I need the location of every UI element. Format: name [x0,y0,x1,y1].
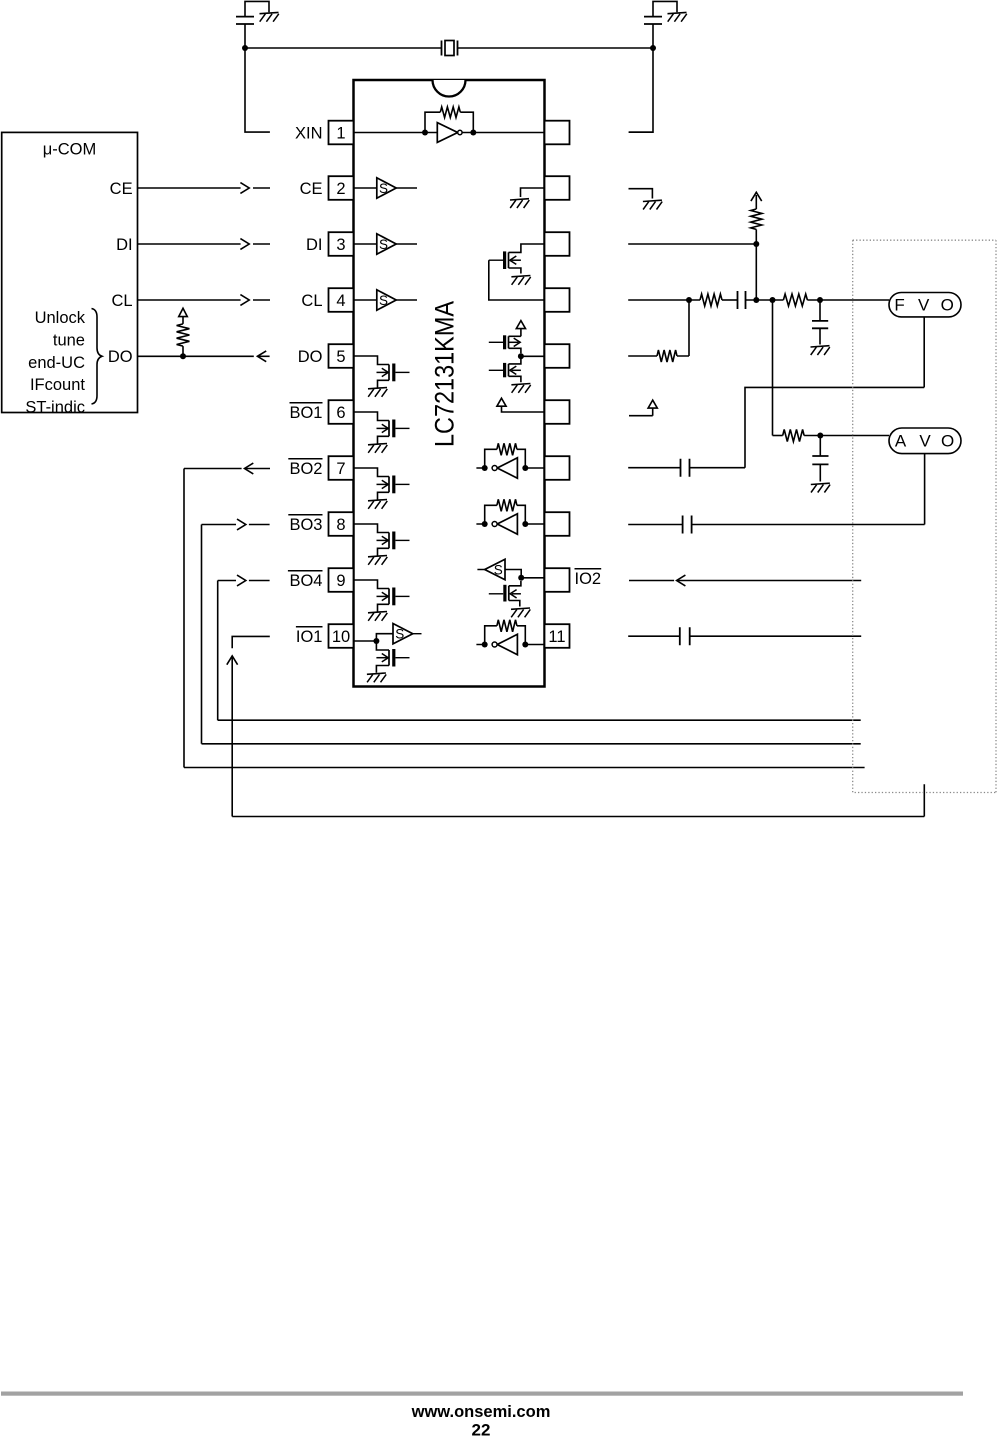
svg-text:DO: DO [108,348,133,366]
transistor Q10 NMOS at IO2 [489,581,521,607]
wire AVO row left [773,435,783,437]
schmitt buffer at pin 10 [393,624,422,644]
svg-text:CE: CE [300,180,323,198]
microcomputer block u-COM box [2,132,138,412]
wire row2 external to ground [629,189,653,199]
ground external row2 [643,200,662,209]
right-side pin box row y=524 [545,512,570,536]
svg-text:CL: CL [112,292,133,310]
svg-text:5: 5 [336,348,345,366]
svg-text:4: 4 [336,292,345,310]
wire row4 external left [628,299,700,301]
pin 10 box [329,624,354,648]
wire row3 to row4 vertical [755,244,757,300]
wire bus line BO3 [202,743,861,745]
pin 2 box [329,176,354,200]
pin 5 box [329,344,354,368]
wire DO from u-COM [138,355,254,357]
svg-text:IO2: IO2 [575,570,602,588]
node row4 c [770,297,776,303]
wire pin10 internal [354,634,394,650]
node R2 row3 junction [753,241,759,247]
svg-text:F: F [894,296,904,315]
pin label IO2 [575,569,602,588]
svg-text:S: S [379,293,388,308]
ground for pin 7 NMOS [368,500,387,509]
wire BO3 dash [249,524,270,526]
pin 5 label DO [298,348,323,366]
tuner block dotted outline [853,240,996,792]
pin 4 box [329,288,354,312]
wire row8 to AVO return [692,454,925,525]
op-amp oscillator inverter U1a [437,123,462,143]
pin 7 box [329,456,354,480]
svg-text:μ-COM: μ-COM [43,141,97,159]
resistor R2 to VS [751,209,762,244]
arrow IO1 upward [227,656,238,665]
resistor R5 row5 [657,350,677,362]
capacitor C3 series row4 [738,291,746,309]
wire bus line BO4 [218,719,861,721]
resistor R4 row4 [783,294,807,306]
svg-text:BO1: BO1 [289,404,322,422]
power VS triangle row6 external [648,400,657,408]
wire row9 dash [629,580,674,582]
pin 3 box [329,232,354,256]
arrow CL toward pin 4 [240,295,249,306]
wire bus line BO2 [184,767,865,769]
power VS triangle row6 internal [497,398,506,406]
svg-text:CE: CE [110,180,133,198]
resistor R3 row4 [700,294,722,306]
wire VS to row6 pin [502,406,545,412]
wire DI dash [253,243,270,245]
ground for C2 [668,12,687,21]
wire row8 external left [628,524,682,526]
wire AVO vertical [772,300,774,436]
wire row7 to FVO return [690,317,925,468]
arrow BO2 toward bus [245,463,254,474]
wire row4 to FVO [807,299,889,301]
ground for C1 [260,12,279,21]
svg-text:8: 8 [336,516,345,534]
capacitor C7 series row8 [683,516,692,534]
wire bus line IO1 [232,784,924,816]
svg-text:DO: DO [298,348,323,366]
resistor Rf oscillator feedback [425,107,473,133]
schmitt buffer at pin 3 [354,234,418,254]
block FVO output [889,293,961,317]
wire DI from u-COM [138,243,241,245]
arrow BO3 toward pin 8 [237,519,246,530]
footer rule [1,1392,963,1396]
wire BO4 dash [249,580,270,582]
node XOUT-cap junction [650,45,656,51]
svg-text:2: 2 [336,180,345,198]
capacitor C1 (XIN load cap) [236,1,269,24]
svg-text:O: O [941,296,954,315]
node row4 a [686,297,692,303]
svg-text:O: O [941,432,954,451]
svg-text:S: S [379,237,388,252]
svg-text:IO1: IO1 [296,628,323,646]
wire Q7 gate to row4 pin [489,260,545,300]
right-side pin box row y=580 [545,568,570,592]
pin 7 label BO2 [288,459,322,478]
right-side pin box row y=188 [545,176,570,200]
arrow CE toward pin 2 [240,183,249,194]
wire row2 internal to ground [521,188,545,197]
pin 3 label DI [306,236,323,254]
wire CE from u-COM [138,187,241,189]
ground for C5 [811,483,830,492]
pin 4 label CL [301,292,322,310]
svg-text:BO2: BO2 [289,460,322,478]
brace for status list [92,309,103,405]
right-side pin box row y=412 [545,400,570,424]
pin 1 box [329,121,354,145]
svg-text:BO3: BO3 [289,516,322,534]
node osc out [470,130,476,136]
schmitt buffer at pin 4 [354,290,418,310]
ground for pin 10 NMOS [367,673,386,682]
svg-text:V: V [919,432,931,451]
wire CL dash [253,299,270,301]
schmitt buffer at pin 2 [354,178,418,198]
svg-text:6: 6 [336,404,345,422]
ground for pin 9 NMOS [368,612,387,621]
op-amp inverter with feedback resistor row11 [476,620,544,655]
wire crystal net XOUT side [629,24,653,132]
op-amp inverter with feedback resistor row7 [476,443,544,478]
svg-text:IFcount: IFcount [30,376,85,394]
wire BO4 from bus [218,581,236,721]
ground for pin 8 NMOS [368,556,387,565]
node row4 b [753,297,759,303]
op-amp inverter with feedback resistor row8 [476,499,544,534]
svg-text:DI: DI [306,236,323,254]
wire XIN internal to XOUT [354,132,545,134]
node row4 d [817,297,823,303]
svg-text:tune: tune [53,332,85,350]
node osc in [422,130,428,136]
svg-text:end-UC: end-UC [28,354,85,372]
transistor Q6 NMOS at pin 10 [376,649,409,673]
IC U1 LC72131KMA body outline [354,80,545,687]
svg-text:www.onsemi.com: www.onsemi.com [411,1403,551,1421]
transistor Q2 open-drain NMOS at pin 6 [354,412,410,444]
right-side pin box row y=356 [545,344,570,368]
ground for pin 5 NMOS [368,388,387,397]
svg-text:V: V [918,296,930,315]
power VS triangle row5 internal [516,321,525,329]
node DO pullup junction [180,353,186,359]
right-side pin box row y=636 pin 11 [545,624,570,648]
power VS arrow supply [751,192,762,209]
pin 2 label CE [300,180,323,198]
transistor Q9 NMOS row5 [489,359,521,382]
capacitor C6 series row7 [681,459,690,477]
svg-text:LC72131KMA: LC72131KMA [430,301,460,447]
ground for pin 6 NMOS [368,444,387,453]
transistor Q3 open-drain NMOS at pin 7 [354,468,410,500]
wire BO2 dash [245,468,271,470]
wire IO2 to pin box [521,577,544,579]
capacitor C8 series row11 [680,627,690,645]
wire DO dash [257,355,269,357]
arrow BO4 toward pin 9 [237,575,246,586]
wire crystal left lead [245,47,442,49]
svg-text:DI: DI [116,236,133,254]
wire CE dash [253,187,270,189]
wire row7 external left [628,467,680,469]
resistor R6 AVO row [783,430,804,442]
arrow DO toward u-COM [257,351,266,362]
svg-text:Unlock: Unlock [35,309,86,327]
ground for C4 [811,346,830,355]
svg-text:S: S [395,627,404,642]
capacitor C5 AVO bypass [812,436,828,482]
wire row6 external [629,408,653,416]
block AVO output [889,428,961,454]
right-side pin box row y=468 [545,456,570,480]
right-side pin box row y=300 [545,288,570,312]
node row5 output [518,353,524,359]
transistor Q7 NMOS rows 3-4 [489,244,545,274]
schmitt buffer IO2 row9 [477,559,521,579]
pin 6 box [329,400,354,424]
node XIN-cap junction [242,45,248,51]
resistor R1 DO pull-up [177,317,190,357]
pin 8 box [329,512,354,536]
pin 6 label BO1 [289,403,322,422]
pin 1 label XIN [295,124,323,142]
wire row9 from tuner [677,580,862,582]
ground for Q10 [511,608,530,617]
transistor Q8 PMOS row5 [489,335,521,353]
right-side pin box row y=132.5 [545,121,570,145]
transistor Q1 open-drain NMOS at pin 5 [354,356,410,388]
wire row3 external [628,243,756,245]
wire VS to PMOS [520,329,522,337]
wire crystal net XIN side [245,24,270,132]
wire row4 to cap [722,299,738,301]
pin 10 label IO1 [296,627,323,646]
wire XOUT dash [629,131,653,133]
wire row5 to row4 [677,300,689,356]
transistor Q5 open-drain NMOS at pin 9 [354,580,410,612]
node IO2 junction [518,575,524,581]
ground for Q9 [511,384,530,393]
svg-text:11: 11 [548,628,565,646]
svg-text:S: S [379,181,388,196]
svg-text:BO4: BO4 [289,572,322,590]
wire CL from u-COM [138,299,241,301]
crystal X1 [442,41,458,56]
wire BO2 to bus [184,469,242,768]
svg-text:S: S [494,562,503,577]
node pin10 junction [373,638,379,644]
svg-text:1: 1 [336,124,345,142]
svg-text:10: 10 [332,628,350,646]
svg-text:CL: CL [301,292,322,310]
pin 9 label BO4 [288,571,323,590]
arrow DI toward pin 3 [240,239,249,250]
wire IO1 vertical to bus [231,656,233,817]
pin 8 label BO3 [288,515,322,534]
wire row5 external [628,355,657,357]
wire row11 external left [628,635,680,637]
wire row5 to pin box [521,355,545,357]
svg-text:7: 7 [336,460,345,478]
wire BO3 from bus [202,525,237,744]
pin 9 box [329,568,354,592]
capacitor C2 (XOUT load cap) [644,1,677,24]
svg-text:XIN: XIN [295,124,323,142]
wire row4 mid [746,299,784,301]
node AVO junction [817,433,823,439]
power VS triangle for R1 [179,308,188,316]
transistor Q4 open-drain NMOS at pin 8 [354,524,410,556]
wire row11 to tuner [690,635,862,637]
ground internal row2 [510,199,529,208]
u-COM status list Unlock/tune/end-UC/IFcount/ST-indic [25,309,85,416]
right-side pin box row y=244 [545,232,570,256]
svg-text:ST-indic: ST-indic [25,398,85,416]
wire crystal right lead [458,47,654,49]
arrow row9 toward pin IO2 [677,575,686,586]
capacitor C4 FVO bypass [812,300,828,345]
svg-text:3: 3 [336,236,345,254]
svg-text:A: A [895,432,907,451]
svg-text:9: 9 [336,572,345,590]
wire AVO row to box [804,435,889,437]
ground for Q7 [511,276,530,285]
svg-text:22: 22 [472,1421,491,1437]
wire IO1 corner [232,636,270,648]
